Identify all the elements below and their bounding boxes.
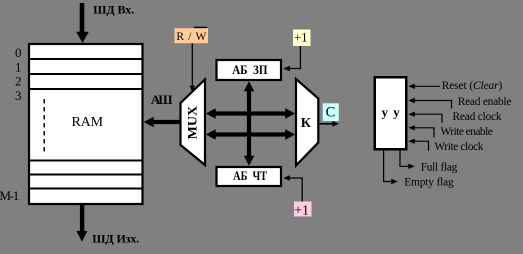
svg-text:К: К [301,116,312,131]
svg-text:MUX: MUX [185,105,199,139]
svg-text:Read clock: Read clock [453,111,502,123]
svg-text:Full flag: Full flag [421,162,458,174]
svg-text:АБ ЗП: АБ ЗП [232,63,268,77]
svg-text:+1: +1 [294,204,309,219]
svg-text:2: 2 [15,74,22,89]
svg-text:ШД Изх.: ШД Изх. [92,232,139,246]
svg-text:Empty flag: Empty flag [404,177,454,189]
svg-text:Read enable: Read enable [458,96,512,108]
svg-text:M-1: M-1 [0,188,19,203]
svg-text:АБ ЧТ: АБ ЧТ [233,169,268,183]
svg-text:Write enable: Write enable [441,126,493,138]
svg-text:Reset (Clear): Reset (Clear) [442,80,503,92]
svg-text:1: 1 [15,59,22,74]
svg-text:3: 3 [15,88,22,103]
svg-text:у у: у у [382,104,401,119]
svg-text:ШД Вх.: ШД Вх. [93,2,134,16]
svg-text:АШ: АШ [151,92,173,107]
svg-text:0: 0 [15,45,22,60]
svg-text:С: С [326,104,336,120]
svg-text:Write clock: Write clock [434,141,483,153]
svg-text:+1: +1 [294,30,307,44]
svg-text:RAM: RAM [72,115,104,130]
svg-text:R / W: R / W [176,31,206,43]
